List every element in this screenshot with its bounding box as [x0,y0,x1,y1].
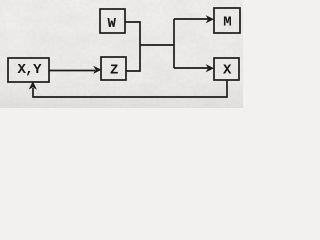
svg-text:X: X [223,62,232,78]
svg-text:W: W [107,16,116,32]
svg-text:M: M [223,15,231,31]
svg-text:X,Y: X,Y [17,62,42,78]
svg-text:Z: Z [110,62,118,78]
